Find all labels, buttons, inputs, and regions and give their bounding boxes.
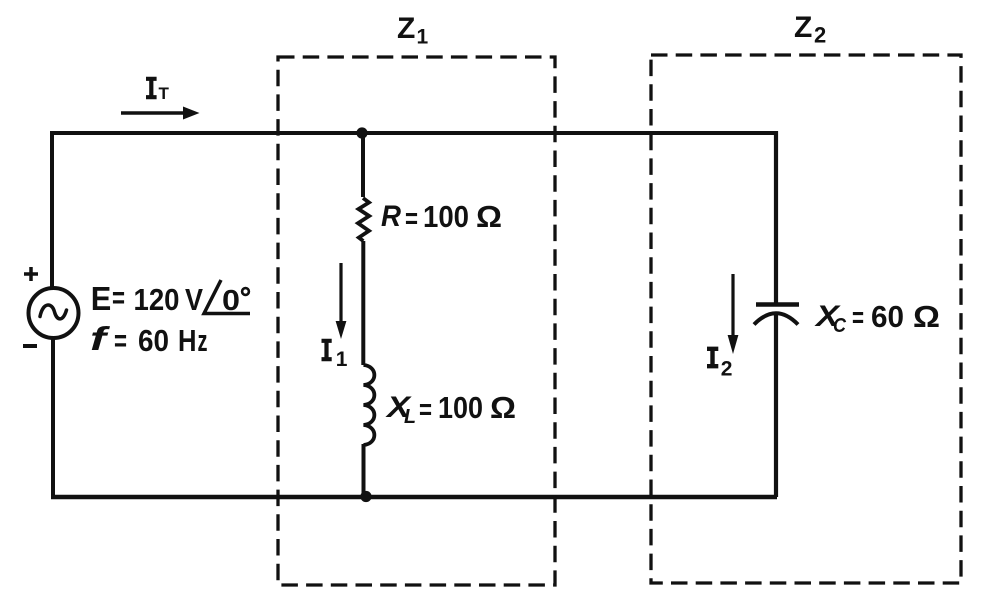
label IT: [146, 78, 170, 103]
label f = 60 Hz: [90, 320, 208, 358]
svg-text:H: H: [178, 323, 197, 358]
svg-text:120: 120: [134, 282, 180, 317]
label I2: [707, 348, 732, 381]
svg-text:1: 1: [417, 26, 429, 49]
svg-text:R: R: [381, 200, 401, 233]
label Z2: [794, 11, 826, 48]
svg-text:T: T: [159, 84, 170, 103]
wire middle lower: [362, 444, 366, 497]
wire middle mid: [361, 241, 365, 365]
svg-text:2: 2: [721, 358, 733, 381]
wire right branch lower: [774, 314, 778, 497]
resistor R: [358, 198, 369, 241]
svg-text:2: 2: [814, 23, 826, 48]
svg-text:V: V: [185, 282, 203, 317]
svg-text:Z: Z: [794, 11, 812, 44]
impedance box Z2 (dashed): [651, 55, 961, 583]
label E = 120 V /0°: [91, 280, 250, 317]
wire top: [52, 131, 776, 135]
arrow I1: [336, 263, 347, 339]
svg-text:=: =: [112, 280, 125, 315]
svg-text:Ω: Ω: [913, 299, 940, 334]
wire bottom: [51, 495, 777, 500]
label XC = 60 ohm: [814, 299, 940, 337]
svg-text:60: 60: [138, 323, 169, 358]
svg-text:Ω: Ω: [476, 199, 502, 234]
arrow IT: [121, 107, 200, 120]
svg-text:L: L: [404, 406, 416, 428]
arrow I2: [728, 274, 739, 354]
svg-text:=: =: [114, 323, 127, 358]
svg-text:=: =: [405, 203, 418, 235]
node top junction: [356, 127, 367, 138]
svg-text:C: C: [833, 315, 846, 337]
wire left upper: [50, 131, 54, 287]
svg-text:100: 100: [438, 390, 483, 425]
svg-text:Z: Z: [397, 12, 415, 45]
svg-text:E: E: [91, 280, 112, 317]
svg-text:1: 1: [336, 348, 348, 371]
svg-text:100: 100: [423, 199, 469, 234]
label R = 100 ohm: [381, 199, 502, 235]
capacitor XC: [754, 305, 799, 325]
label XL = 100 ohm: [385, 390, 516, 428]
svg-text:=: =: [852, 302, 864, 334]
label Z1: [397, 12, 429, 49]
svg-text:z: z: [198, 323, 208, 358]
node bottom junction: [360, 491, 371, 502]
svg-text:=: =: [419, 394, 432, 426]
wire middle upper: [361, 133, 365, 197]
svg-text:Ω: Ω: [490, 390, 516, 425]
inductor XL: [364, 365, 375, 445]
wire right branch upper: [774, 131, 778, 303]
ac source E: [23, 267, 79, 346]
wire left lower: [51, 339, 55, 498]
impedance box Z1 (dashed): [278, 57, 555, 585]
label I1: [322, 340, 348, 371]
svg-text:0: 0: [222, 285, 240, 317]
svg-text:60: 60: [871, 299, 904, 334]
